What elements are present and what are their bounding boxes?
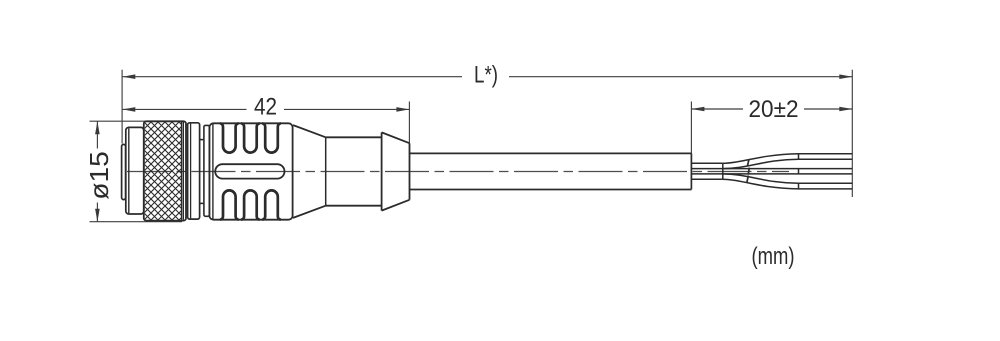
arrowhead ø15 bottom [95,209,100,222]
connector: body slot [215,164,284,178]
extension line mid (42 right, end of connector) [408,102,410,144]
stripped wire end bottom [799,183,853,189]
connector: groove top 1 [220,123,239,152]
connector: knurl crosshatch [145,122,182,220]
dimension 20±2 line [691,108,852,110]
stripped wire end middle tick [798,169,800,174]
connector: recess top line [200,139,204,141]
connector: cylinder bottom [326,205,382,207]
connector: washer1 [188,123,200,219]
connector: recess bottom line [200,202,204,204]
wire bundle lines [691,163,722,179]
connector: front collar inner edge [128,128,130,213]
dimension L*) line [122,76,852,78]
connector: taper top [293,125,326,137]
cable jacket end [690,153,692,189]
arrowhead 42 right [396,107,409,112]
arrowhead 20±2 right [839,107,852,112]
connector: washer2 [204,125,210,216]
connector: bell bottom slant [382,200,410,211]
arrowhead 42 left [122,107,135,112]
svg-text:(mm): (mm) [752,243,795,270]
stripped wire end top [799,154,853,159]
extension line right [851,70,853,197]
dimension ø15 line [96,121,98,221]
connector: knurl right rim line [181,122,183,220]
wire middle straight lines [723,168,853,170]
wire break tick top [747,160,749,167]
connector: bell right edge [409,143,411,200]
wire bottom fan curves [723,174,799,183]
connector: groove bottom 2 [241,190,260,219]
connector: groove bottom 3 [262,190,281,219]
connector: groove top 3 [262,123,281,152]
connector: washer1 inner edge [190,124,192,219]
svg-text:L*): L*) [474,62,498,89]
extension line left (front face) [121,70,123,144]
dimension 42 line [122,108,409,110]
connector: cylinder top [326,136,382,138]
extension line ø15 top [90,120,183,122]
svg-text:42: 42 [254,94,277,121]
connector: bell left edge [381,132,383,210]
extension line jacket end (20±2 left) [690,102,692,154]
wire top fan curves [723,154,799,164]
connector: knurled nut [144,121,186,220]
connector: groove top 2 [241,123,260,152]
connector: knurl rim inner line [182,122,184,220]
connector: groove bottom 1 [220,190,239,219]
arrowhead L right [839,74,852,79]
centerline [127,171,789,173]
connector: molded body [209,123,292,219]
connector: bell top slant [382,132,410,143]
cable bottom edge [410,189,692,191]
connector: taper-cylinder junction [325,137,327,205]
connector: front collar [126,127,144,214]
arrowhead 20±2 left [691,107,704,112]
svg-text:20±2: 20±2 [749,96,799,123]
connector: taper bottom [293,206,326,218]
arrowhead ø15 top [95,121,100,134]
svg-text:ø15: ø15 [84,151,114,200]
wire break tick middle [748,168,749,175]
wire break tick bottom [747,176,748,183]
arrowhead L left [122,74,135,79]
cable top edge [410,152,692,154]
connector: front tab [122,144,126,199]
extension line ø15 bottom [90,221,183,223]
connector: body left shoulder line [212,124,214,219]
